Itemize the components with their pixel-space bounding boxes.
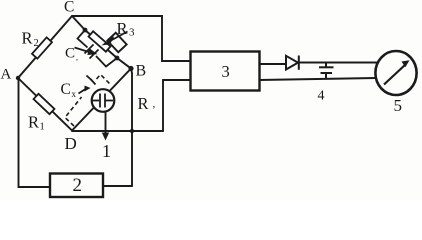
svg-text:2: 2	[73, 175, 83, 196]
svg-text:x: x	[72, 89, 77, 99]
svg-text:R: R	[138, 94, 149, 113]
svg-text:1: 1	[40, 122, 45, 133]
svg-text:3: 3	[129, 27, 135, 39]
svg-text:C: C	[61, 81, 71, 98]
svg-text:3: 3	[222, 62, 230, 81]
svg-text:C: C	[64, 0, 74, 16]
svg-text:,: ,	[76, 53, 78, 62]
svg-text:1: 1	[102, 141, 111, 161]
svg-text:B: B	[136, 63, 147, 80]
svg-text:5: 5	[394, 96, 403, 115]
svg-text:R: R	[28, 113, 39, 132]
svg-text:D: D	[65, 134, 77, 153]
svg-text:R: R	[117, 19, 128, 38]
svg-text:2: 2	[34, 38, 39, 49]
svg-text:A: A	[1, 67, 12, 83]
svg-text:,: ,	[153, 98, 156, 110]
svg-text:C: C	[65, 46, 75, 62]
svg-text:4: 4	[318, 89, 325, 104]
svg-text:R: R	[22, 29, 33, 48]
